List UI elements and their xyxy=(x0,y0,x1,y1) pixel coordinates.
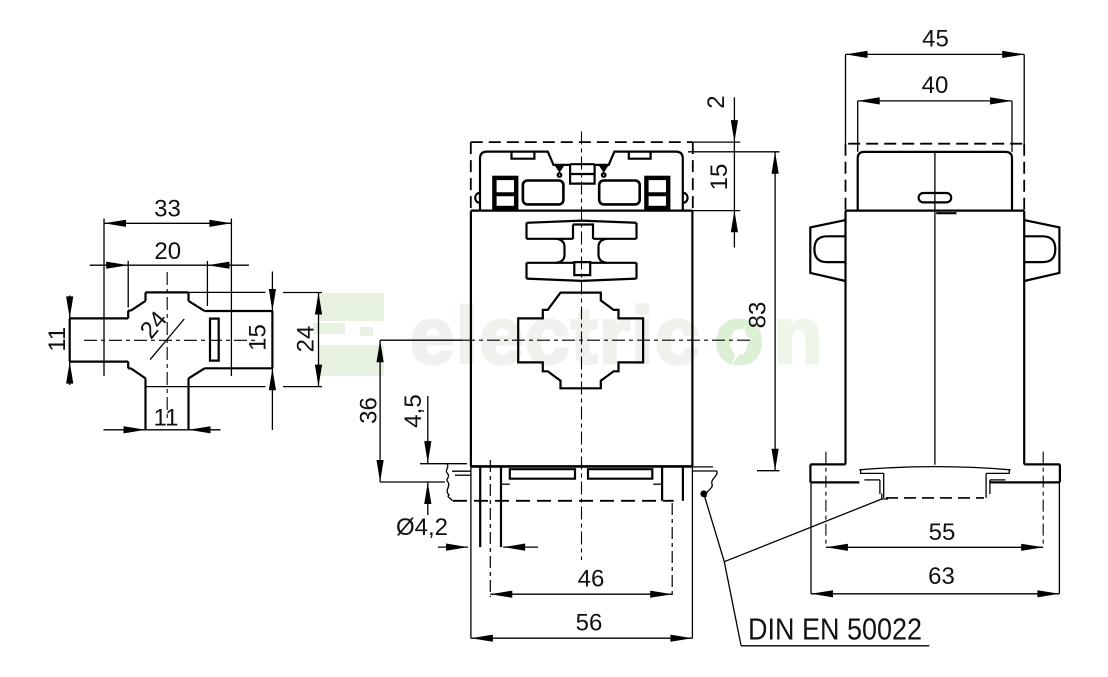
svg-text:40: 40 xyxy=(922,72,949,99)
svg-text:Ø4,2: Ø4,2 xyxy=(396,514,448,541)
svg-text:36: 36 xyxy=(356,397,383,424)
svg-text:20: 20 xyxy=(154,238,181,265)
svg-text:83: 83 xyxy=(745,302,772,329)
svg-text:46: 46 xyxy=(578,566,605,593)
svg-text:4,5: 4,5 xyxy=(400,394,427,427)
svg-text:56: 56 xyxy=(576,610,603,637)
svg-text:15: 15 xyxy=(706,164,733,191)
svg-text:11: 11 xyxy=(154,405,179,432)
svg-text:55: 55 xyxy=(929,519,956,546)
svg-text:24: 24 xyxy=(293,326,320,353)
svg-text:2: 2 xyxy=(703,95,730,108)
svg-text:DIN EN 50022: DIN EN 50022 xyxy=(748,612,922,647)
svg-text:63: 63 xyxy=(928,563,955,590)
svg-text:45: 45 xyxy=(922,26,949,53)
svg-text:33: 33 xyxy=(154,196,181,223)
svg-text:11: 11 xyxy=(44,327,71,352)
svg-text:24: 24 xyxy=(135,306,173,344)
svg-text:15: 15 xyxy=(245,324,272,351)
